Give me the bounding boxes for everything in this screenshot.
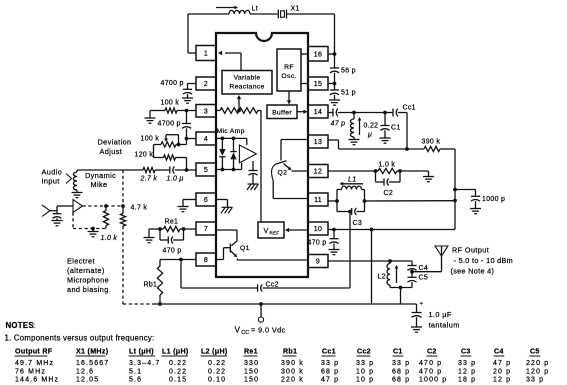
label Cc1 [403, 105, 416, 112]
resistor 100 k pin3 [165, 108, 177, 113]
inductor Lt [229, 10, 250, 14]
arrow resistor node to variable reactance [237, 95, 241, 111]
pin 7 box [196, 222, 216, 235]
svg-text:18 p: 18 p [458, 376, 476, 383]
label 1.0 k electret [101, 235, 118, 242]
capacitor Cc1 [393, 109, 398, 117]
label Audio Input [42, 168, 63, 186]
label 1.0 u [167, 176, 184, 183]
label Electret block [67, 257, 109, 295]
wire L2 bottom node [390, 287, 412, 289]
resistor 4.7 k [120, 206, 125, 226]
node pot right terminal [177, 143, 181, 147]
ground 1000p [470, 209, 481, 214]
resistor 390 k [424, 146, 440, 151]
pin 4 box [196, 132, 216, 145]
label 0.22 [364, 123, 379, 130]
wire pin 13 to Q2 collector [281, 139, 308, 141]
wire 120k to pin5 node [176, 158, 187, 171]
wire 100k left to ground [149, 111, 151, 118]
wire 47p to node A [338, 112, 354, 114]
svg-text:C2: C2 [384, 190, 394, 197]
capacitor C4 [407, 261, 416, 270]
svg-text:0.22: 0.22 [169, 368, 187, 375]
label C4 [419, 265, 429, 272]
capacitor 1.0 uF tantalum [412, 302, 424, 318]
table column Re1 [244, 348, 260, 384]
ground electret cap [52, 218, 63, 225]
wire right rail to 1000p [455, 189, 476, 191]
svg-text:Re1: Re1 [165, 219, 179, 226]
svg-text:CC: CC [241, 330, 249, 336]
dashed wire amp output [83, 205, 124, 207]
svg-text:470 p: 470 p [163, 248, 182, 255]
svg-text:Rb1: Rb1 [283, 348, 297, 356]
wire RF Osc to pin 15 [301, 83, 308, 85]
Vcc terminal stub and circle [258, 304, 263, 322]
node Rb1 bottom on Vcc rail [158, 302, 162, 306]
svg-text:300 k: 300 k [281, 368, 304, 375]
wire pin 14 to 47p [328, 112, 333, 114]
table column C5 [526, 348, 549, 384]
wire 1.0u to pin 5 [175, 169, 196, 171]
svg-text:14: 14 [314, 109, 322, 116]
label 100 k pot [141, 136, 160, 143]
svg-text:0.15: 0.15 [169, 376, 187, 383]
svg-text:0.22: 0.22 [364, 123, 379, 130]
wire pin 15 to rail [328, 83, 335, 85]
node mic amp bottom left [221, 168, 225, 172]
svg-text:C2: C2 [427, 348, 437, 356]
buffer block [267, 105, 297, 119]
wire C1 to ground [384, 130, 386, 137]
svg-text:C3: C3 [461, 348, 471, 356]
svg-text:3.3–4.7: 3.3–4.7 [129, 360, 160, 367]
antenna RF output [435, 246, 448, 256]
chevron electret mic [42, 205, 50, 216]
internal resistor from pin 3 [216, 108, 261, 114]
label 470 p Re1 [163, 248, 182, 255]
wire pin10 row down to Vcc rail [371, 230, 373, 305]
wire Q1 emitter to pin 9 [237, 259, 308, 261]
Q2 label [278, 170, 288, 177]
svg-text:Audio: Audio [42, 168, 63, 177]
svg-text:5.1: 5.1 [129, 368, 142, 375]
pot wiper arrow [164, 135, 178, 145]
label dBm [454, 256, 513, 265]
svg-text:L2: L2 [378, 274, 386, 281]
svg-text:47 p: 47 p [331, 121, 346, 128]
node Cc1 on pin13 row [405, 147, 409, 151]
wire X1 to right rail [287, 14, 335, 54]
svg-text:+: + [420, 302, 424, 308]
table column C1 [392, 348, 410, 384]
svg-text:= 9.0 Vdc: = 9.0 Vdc [251, 326, 286, 335]
svg-text:RF Output: RF Output [452, 246, 489, 255]
table column L1 (uH) [162, 348, 189, 384]
node Vcc branch pin10 row [370, 228, 374, 232]
wire node A to node B [354, 112, 385, 114]
svg-text:Electret: Electret [67, 257, 95, 266]
node pin 16 rail [333, 52, 337, 56]
op-amp triangle mic amp [239, 145, 256, 163]
svg-text:V: V [235, 326, 241, 335]
label 100 k pin3 [161, 100, 180, 107]
dashed wire 4.7k down to Vcc rail [122, 226, 124, 304]
node pin 3 junction [185, 109, 189, 113]
ground 4700p upper [182, 98, 193, 103]
Q1 label [240, 245, 250, 252]
node tank right [363, 199, 367, 203]
label Dynamic Mike [85, 171, 116, 189]
svg-text:390 k: 390 k [422, 139, 441, 146]
pin 11 box [308, 193, 328, 206]
wire pin 5 mic amp bottom rail [216, 169, 242, 171]
svg-text:12 p: 12 p [458, 368, 476, 375]
label Vcc 9.0 Vdc [235, 326, 286, 337]
svg-text:Q1: Q1 [240, 245, 250, 252]
label Rb1 [144, 282, 158, 289]
wire pin 8 row [160, 259, 196, 261]
ground right rail [329, 100, 340, 105]
wire pin 6 internal [216, 200, 228, 208]
resistor 1.0 k electret [103, 206, 108, 229]
node pin 15 rail [333, 82, 337, 86]
inductor 0.22 uH [350, 113, 354, 140]
table column Cc1 [321, 348, 339, 384]
wire tantalum to ground [416, 317, 418, 326]
arrow beside 0.22uH inductor [358, 117, 362, 135]
capacitor 470 p parallel Re1 [160, 229, 184, 244]
table column Cc2 [356, 348, 374, 384]
node pin 4 junction [185, 137, 189, 141]
svg-text:Cc2: Cc2 [357, 348, 371, 356]
Vcc rail [152, 303, 417, 305]
resistor 1.0 k [378, 168, 397, 173]
svg-text:Buffer: Buffer [272, 110, 292, 117]
svg-text:Q2: Q2 [278, 170, 288, 177]
wire pin8 node down to Cc2 [180, 260, 182, 289]
table column C3 [458, 348, 476, 384]
svg-text:C5: C5 [419, 275, 429, 282]
svg-text:12.05: 12.05 [76, 376, 99, 383]
table column L2 (uH) [201, 348, 228, 384]
wire pin 10 row [328, 229, 455, 231]
svg-text:Output RF: Output RF [15, 348, 53, 356]
inductor dynamic mike coil [73, 170, 77, 192]
wire Cc2 right segment [262, 287, 350, 289]
wire pin 16 to rail [328, 53, 335, 55]
label Deviation Adjust [98, 138, 132, 157]
pin 5 box [196, 163, 216, 176]
svg-text:20 p: 20 p [493, 368, 511, 375]
wire pin 9 to C4 [328, 260, 412, 262]
svg-text:33 p: 33 p [458, 360, 476, 367]
svg-text:0.22: 0.22 [208, 368, 226, 375]
svg-text:Adjust: Adjust [100, 147, 123, 156]
label C1 [391, 125, 401, 132]
svg-text:47 p: 47 p [321, 376, 339, 383]
svg-text:8: 8 [204, 257, 208, 264]
capacitor under op-amp [249, 161, 258, 175]
label 4700 p upper [161, 80, 184, 87]
svg-text:1.0 k: 1.0 k [379, 162, 396, 169]
svg-text:Variable: Variable [234, 75, 261, 82]
wire pin 3 row [150, 110, 196, 112]
svg-text:(alternate): (alternate) [67, 266, 105, 275]
wire 470p pin10 ground [333, 244, 335, 250]
label 4.7 k [131, 205, 148, 212]
node L2 top [388, 259, 392, 263]
inductor L2 [387, 261, 390, 288]
label 1.0 uF [429, 310, 452, 319]
node Re1 left [158, 227, 162, 231]
pin 2 box [196, 77, 216, 90]
svg-text:X1 (MHz): X1 (MHz) [76, 348, 109, 356]
pin 16 box [308, 47, 328, 62]
node amp output 1.0k [104, 204, 108, 208]
capacitor 51 p [330, 90, 339, 95]
svg-text:Deviation: Deviation [98, 138, 132, 147]
capacitor 4700 p upper [183, 89, 192, 94]
ground C1 [380, 138, 391, 143]
resistor 120 k [164, 155, 176, 160]
svg-text:12 p: 12 p [493, 376, 511, 383]
ground pin 6 external [178, 207, 189, 212]
label C2 [384, 190, 394, 197]
ground bias node [88, 229, 99, 237]
label mu for 0.22 [367, 132, 372, 139]
node pin11 wire on right rail [453, 199, 457, 203]
svg-text:- 5.0 to - 10 dBm: - 5.0 to - 10 dBm [454, 256, 513, 265]
capacitor C1 [380, 113, 389, 131]
svg-text:56 p: 56 p [341, 68, 356, 75]
svg-text:10 p: 10 p [356, 368, 374, 375]
svg-text:120 p: 120 p [526, 368, 549, 375]
label see Note 4 [451, 267, 495, 276]
diode D1 mic amp (cathode down) [219, 138, 225, 169]
capacitor 56 p [330, 54, 339, 73]
ground 100k pin3 [145, 118, 156, 123]
node C4/C5 midpoint [410, 270, 414, 274]
svg-text:Cc1: Cc1 [322, 348, 336, 356]
node bias ground [91, 227, 95, 231]
svg-text:C4: C4 [419, 265, 429, 272]
svg-text:220 k: 220 k [281, 376, 304, 383]
wire electret cap to amp triangle [57, 205, 73, 207]
amplifier triangle electret [73, 200, 83, 213]
wire pin 5 row left [77, 169, 143, 171]
ground mike coil [72, 193, 83, 198]
wire 390k to right rail corner [440, 149, 455, 230]
svg-text:9: 9 [316, 259, 320, 266]
wire Lt to crystal X1 [250, 13, 278, 15]
wire pin 6 to ground [183, 200, 196, 207]
Mic Amp label [217, 128, 245, 135]
svg-text:Reactance: Reactance [229, 84, 264, 91]
wire midpoint to antenna [412, 256, 442, 272]
wire pin 7 to Q1 collector [216, 230, 237, 241]
svg-text:76 MHz: 76 MHz [15, 368, 46, 375]
label tantalum [429, 321, 460, 330]
svg-text:REF: REF [269, 231, 279, 236]
wire 4700p lower to pin4 node [186, 128, 188, 138]
node 1.0k right [398, 169, 402, 173]
capacitor electret input [50, 206, 61, 218]
svg-text:4700 p: 4700 p [161, 80, 184, 87]
node Re1 right [182, 227, 186, 231]
node pin 8 junction [179, 258, 183, 262]
wire pot to pin4 node [176, 139, 187, 145]
svg-text:(see Note 4): (see Note 4) [451, 267, 495, 276]
capacitor C3 tank bottom [337, 208, 365, 215]
ground under op-amp cap [247, 175, 259, 191]
svg-text:4.7 k: 4.7 k [131, 205, 148, 212]
crystal X1 [278, 10, 286, 19]
IC U1 MC2833 body outline with pin-1 notch [216, 33, 308, 277]
pin 10 box [308, 222, 328, 235]
wire Cc1 corner down to 390k line [398, 113, 407, 150]
wire L2 bottom to Vcc rail [400, 288, 402, 305]
potentiometer 100 k deviation [161, 142, 176, 147]
wire pin 4 mic amp top rail [216, 137, 247, 139]
label L1 with arrow [340, 177, 364, 186]
svg-text:Rb1: Rb1 [144, 282, 158, 289]
wire Re1 to pin 7 [184, 228, 197, 230]
svg-text:33 p: 33 p [321, 360, 339, 367]
capacitor C5 [407, 271, 416, 283]
label 56 p [341, 68, 356, 75]
label 120 k [135, 152, 154, 159]
svg-text:1.0 μ: 1.0 μ [167, 176, 184, 183]
node mic amp top right [232, 137, 236, 141]
svg-text:7: 7 [204, 226, 208, 233]
capacitor Cc2 [258, 284, 263, 291]
svg-text:150: 150 [244, 368, 259, 375]
svg-text:47 p: 47 p [493, 360, 511, 367]
svg-text:390 k: 390 k [281, 360, 304, 367]
arrow RF Osc to buffer [287, 91, 291, 105]
svg-text:12: 12 [314, 169, 322, 176]
svg-text:13: 13 [314, 139, 322, 146]
wire Cc2 left segment [181, 287, 258, 289]
svg-text:220 p: 220 p [526, 360, 549, 367]
svg-text:120 k: 120 k [135, 152, 154, 159]
pin 8 box [196, 253, 216, 266]
dashed wire amp bottom to bias [73, 213, 106, 229]
wire C5 to bottom node [411, 282, 413, 287]
label L2 [378, 274, 386, 281]
variable reactance block [222, 71, 272, 95]
svg-text:4700 p: 4700 p [158, 121, 181, 128]
wire resistor to Vref vertical [260, 111, 262, 223]
node L2 bottom [399, 286, 403, 290]
svg-text:10: 10 [314, 226, 322, 233]
svg-text:51 p: 51 p [341, 90, 356, 97]
svg-text:Re1: Re1 [244, 348, 258, 356]
X1 label [291, 6, 300, 13]
wire node B to Cc1 [385, 112, 393, 114]
wire pot left to 120k [154, 145, 164, 158]
svg-text:X1: X1 [291, 6, 300, 13]
wire 1000p to ground [475, 201, 477, 208]
svg-text:1. Components versus output f: 1. Components versus output frequency: [5, 334, 155, 343]
node tank left [335, 199, 339, 203]
svg-text:33 p: 33 p [526, 376, 544, 383]
svg-text:100 k: 100 k [161, 100, 180, 107]
wire pin 13 jog [328, 140, 339, 149]
svg-text:12.6: 12.6 [76, 368, 94, 375]
ground 470p pin10 [329, 250, 340, 255]
capacitor 470 p pin10 [329, 230, 338, 244]
wire 1.0k to ground [397, 171, 429, 176]
pin 13 box [308, 135, 328, 148]
svg-text:Osc.: Osc. [281, 73, 296, 80]
svg-text:NOTES: NOTES [6, 321, 34, 330]
wire mic amp bottom rail to op-amp [241, 163, 243, 170]
svg-text:16.5667: 16.5667 [76, 360, 109, 367]
Vref block U1 [258, 222, 284, 238]
resistor Rb1 [157, 260, 162, 305]
svg-text:L2 (μH): L2 (μH) [201, 348, 228, 356]
diode D2 mic amp (cathode up) [230, 138, 236, 169]
svg-text:Lt (μH): Lt (μH) [129, 348, 154, 356]
svg-text:1000 p: 1000 p [482, 196, 505, 203]
svg-text:L1: L1 [348, 177, 356, 184]
svg-text:3: 3 [204, 108, 208, 115]
svg-text:150: 150 [244, 376, 259, 383]
node mic amp bottom right [232, 168, 236, 172]
wire pin 4 [187, 138, 197, 140]
node B junction C1 [383, 111, 387, 115]
svg-text:11: 11 [314, 197, 322, 204]
svg-text:1: 1 [204, 51, 208, 58]
wire mic amp top rail to op-amp [246, 138, 248, 145]
wire pin 1 loop up-left [188, 14, 229, 53]
transistor Q1 [230, 241, 237, 257]
arrow over Lt inductor [216, 6, 238, 10]
note 1 line [5, 334, 155, 343]
wire pin 11 to tank [328, 200, 337, 202]
arrow beside L2 [395, 265, 399, 283]
label 1000 p [482, 196, 505, 203]
wire tank bottom down to Cc2 line [349, 212, 351, 289]
capacitor 47 p [333, 109, 338, 117]
wire Q2 base to pin 11 [273, 198, 308, 200]
svg-text:1.0 μF: 1.0 μF [429, 310, 452, 319]
svg-text:33 p: 33 p [356, 360, 374, 367]
svg-text:5.6: 5.6 [129, 376, 142, 383]
Lt label [252, 6, 258, 13]
junction node on pin 3 resistor [237, 109, 241, 113]
svg-text:10 p: 10 p [356, 376, 374, 383]
svg-text:470 p: 470 p [419, 360, 442, 367]
node A junction 47p/0.22uH [352, 111, 356, 115]
svg-text:C5: C5 [530, 348, 540, 356]
node Vcc terminal [259, 302, 263, 306]
label C3 [353, 220, 363, 227]
table column C4 [493, 348, 511, 384]
svg-text:C3: C3 [353, 220, 363, 227]
tank circuit left/right sides [337, 190, 365, 212]
svg-text:tantalum: tantalum [429, 321, 460, 330]
node 1.0k left [374, 169, 378, 173]
label C5 [419, 275, 429, 282]
ground pin 12 row [423, 177, 434, 182]
svg-text:5: 5 [204, 167, 208, 174]
svg-text:μ: μ [367, 132, 372, 139]
svg-text:470 p: 470 p [308, 240, 327, 247]
